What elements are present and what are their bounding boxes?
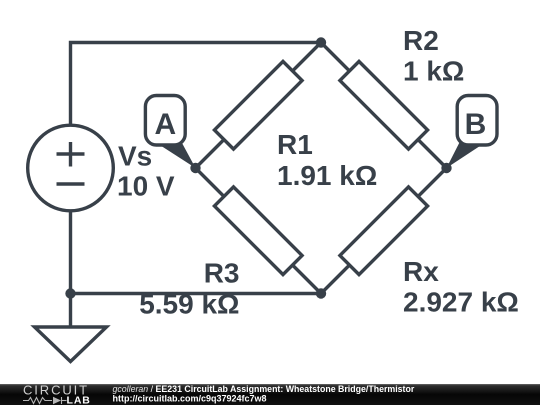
- resistor R2 body: [340, 61, 428, 149]
- logo zigzag resistor and diode: [23, 397, 67, 404]
- svg-text:R1: R1: [277, 129, 313, 160]
- svg-text:Rx: Rx: [403, 256, 439, 287]
- node dot left (node A): [190, 163, 200, 173]
- svg-text:5.59 kΩ: 5.59 kΩ: [139, 289, 239, 320]
- resistor R1 body: [214, 61, 302, 149]
- voltage source Vs: [28, 125, 114, 211]
- wire diagonal top-left (R1 branch): [196, 43, 322, 169]
- footer bar: [0, 384, 540, 405]
- wire diagonal top-right (R2 branch): [321, 43, 447, 169]
- svg-text:B: B: [465, 108, 487, 141]
- svg-text:1.91 kΩ: 1.91 kΩ: [277, 160, 377, 191]
- wire top horizontal and left vertical upper: [71, 43, 322, 126]
- node B flag box: [457, 96, 497, 146]
- wire diagonal bottom-right (Rx branch): [321, 168, 447, 294]
- svg-text:LAB: LAB: [67, 395, 91, 405]
- svg-text:R3: R3: [204, 258, 240, 289]
- node dot right (node B): [441, 163, 451, 173]
- svg-text:Vs: Vs: [118, 141, 152, 172]
- node dot ground junction: [65, 288, 75, 298]
- wire left vertical lower: [69, 211, 72, 328]
- svg-text:A: A: [154, 108, 176, 141]
- node dot top: [316, 37, 326, 47]
- wire bottom horizontal: [71, 292, 322, 295]
- node B flag tail: [447, 143, 483, 168]
- svg-text:1 kΩ: 1 kΩ: [403, 55, 464, 86]
- wire diagonal bottom-left (R3 branch): [196, 168, 322, 294]
- node dot bottom: [316, 288, 326, 298]
- node A flag tail: [159, 143, 196, 168]
- resistor Rx body: [340, 187, 428, 275]
- node A flag box: [145, 96, 185, 146]
- svg-text:R2: R2: [403, 25, 439, 56]
- ground: [35, 327, 107, 362]
- resistor R3 body: [214, 187, 302, 275]
- svg-text:http://circuitlab.com/c9q37924: http://circuitlab.com/c9q37924fc7w8: [113, 393, 267, 403]
- svg-text:2.927 kΩ: 2.927 kΩ: [403, 287, 519, 318]
- svg-text:10 V: 10 V: [117, 171, 175, 202]
